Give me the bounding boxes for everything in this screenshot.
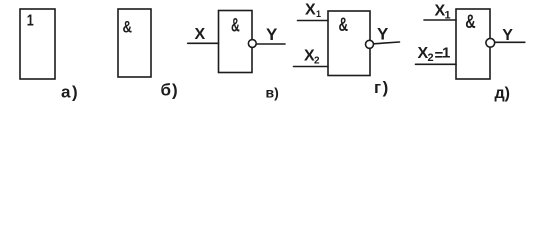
gate box d (NAND with X2 tied to 1) xyxy=(456,9,490,79)
output wire Y (d) xyxy=(495,41,525,43)
svg-text:б): б) xyxy=(161,81,179,100)
gate box b (AND element) xyxy=(118,9,151,77)
input wire X2 (g) xyxy=(294,66,329,68)
svg-text:в): в) xyxy=(266,85,279,101)
output wire Y (v) xyxy=(256,43,285,45)
output wire Y (g) xyxy=(374,42,400,44)
gate box g (2-input NAND) xyxy=(328,11,370,76)
input wire X1 (g) xyxy=(298,20,329,22)
svg-text:г): г) xyxy=(374,78,390,97)
svg-text:Y: Y xyxy=(266,25,278,44)
gate box v (inverter drawn as NAND) xyxy=(219,11,253,73)
svg-text:2: 2 xyxy=(428,52,434,64)
svg-text:&: & xyxy=(465,12,476,33)
svg-text:Y: Y xyxy=(377,25,389,44)
svg-text:2: 2 xyxy=(314,56,320,67)
svg-text:1: 1 xyxy=(445,9,451,21)
svg-text:&: & xyxy=(123,18,133,37)
input wire X2 (d) xyxy=(416,63,457,65)
svg-text:1: 1 xyxy=(27,13,34,30)
svg-text:1: 1 xyxy=(316,9,321,19)
svg-text:д): д) xyxy=(495,85,510,102)
svg-text:X: X xyxy=(305,2,316,19)
svg-text:X: X xyxy=(195,26,206,43)
input wire X1 (d) xyxy=(424,19,456,21)
inversion circle (v) xyxy=(248,40,256,48)
input wire X (v) xyxy=(188,42,219,44)
inversion circle (g) xyxy=(366,40,374,48)
svg-text:&: & xyxy=(339,15,349,36)
svg-text:&: & xyxy=(231,16,240,37)
svg-text:а): а) xyxy=(61,83,79,102)
svg-text:1: 1 xyxy=(442,45,450,62)
svg-text:Y: Y xyxy=(502,27,513,44)
gate box a (element with "1") xyxy=(20,9,55,79)
inversion circle (d) xyxy=(486,38,495,47)
